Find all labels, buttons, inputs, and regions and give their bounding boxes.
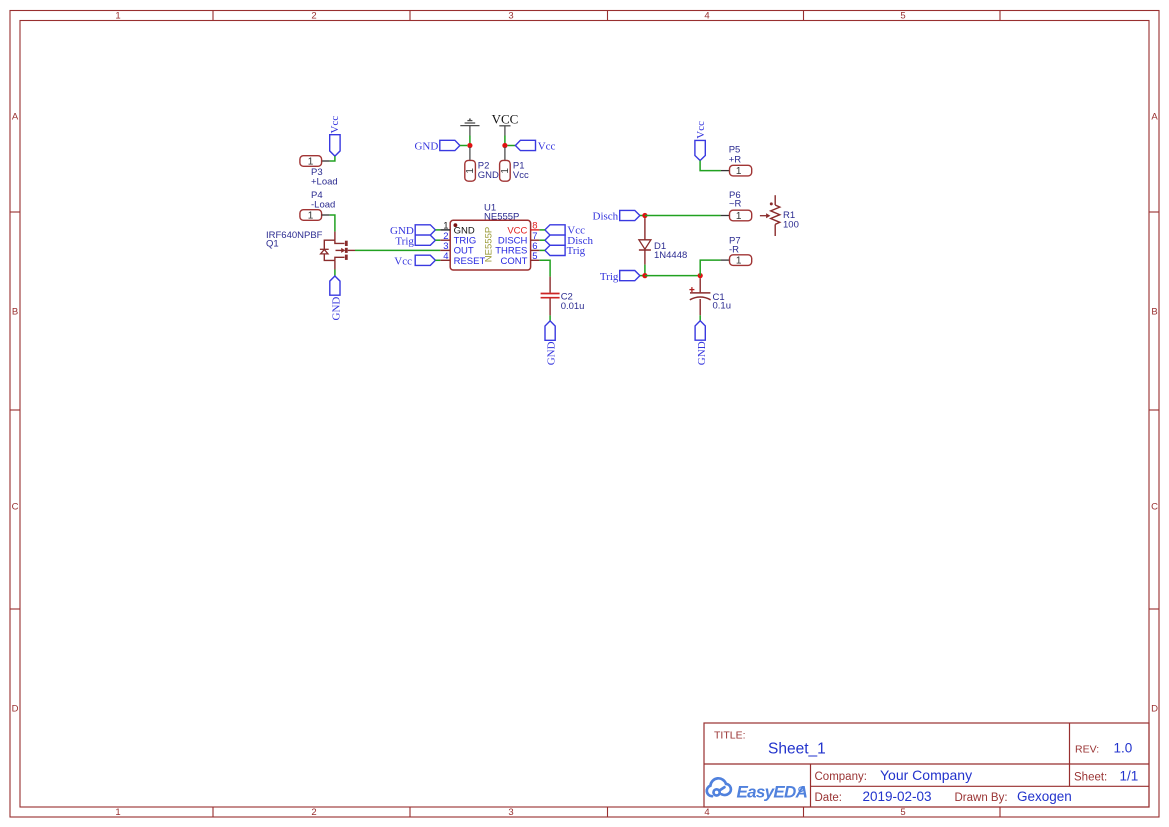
netflag Disch left (620, 210, 640, 220)
svg-text:1: 1 (465, 168, 476, 174)
wire Disch node to P6 (645, 215, 721, 217)
wire C1 node to P7 (700, 260, 720, 276)
op-amp U1 NE555P body (450, 220, 530, 270)
pin P5 pin1 (721, 170, 730, 172)
wire Vcc flag to pin4 (435, 259, 440, 261)
ruler tick bottom 4 (803, 807, 805, 817)
svg-text:-R: -R (729, 245, 739, 256)
netflag GND left of rail (440, 140, 460, 150)
EasyEDA logo registered mark (799, 787, 803, 791)
svg-text:Company:: Company: (815, 771, 867, 783)
connector P2 (465, 160, 476, 181)
pin 1 line (GND) (440, 229, 450, 231)
VCC power symbol (499, 126, 510, 136)
ruler tick left A/B (10, 211, 20, 213)
svg-text:Date:: Date: (815, 792, 843, 804)
pin P4 pin1 (322, 214, 330, 216)
svg-text:1: 1 (308, 156, 314, 167)
svg-text:1/1: 1/1 (1120, 769, 1139, 784)
svg-text:D: D (1151, 704, 1158, 715)
title block divider logo cell (810, 764, 812, 807)
pin P3 pin1 (322, 160, 330, 162)
svg-text:Vcc: Vcc (329, 116, 341, 134)
pin 3 line (OUT) (440, 249, 450, 251)
wire Trig flag to node (640, 275, 645, 277)
resistor R1 top lead (774, 195, 776, 205)
transistor Q1 channel bar (345, 241, 348, 260)
netflag Disch at pin7 (545, 235, 565, 245)
svg-text:Sheet_1: Sheet_1 (768, 741, 826, 758)
ground flag under C2 (545, 321, 555, 340)
EasyEDA logo cloud (707, 778, 731, 796)
diode D1 bottom lead (644, 250, 646, 265)
wire C2 to GND flag (549, 315, 551, 321)
wire P3 to Vcc flag (330, 156, 335, 161)
svg-text:D: D (12, 704, 19, 715)
svg-text:B: B (12, 307, 18, 318)
svg-text:Trig: Trig (567, 245, 586, 257)
ruler tick right A/B (1149, 211, 1159, 213)
title block divider rev column (1069, 723, 1071, 786)
svg-text:VCC: VCC (492, 111, 519, 126)
pin 1 marker dot (454, 223, 458, 227)
svg-text:GND: GND (696, 341, 708, 365)
capacitor C1 plus sign (689, 287, 694, 292)
pin 4 line (RESET) (440, 259, 450, 261)
connector P3 (300, 156, 322, 167)
svg-text:1: 1 (115, 11, 120, 22)
svg-text:1: 1 (736, 211, 742, 222)
ruler tick left C/D (10, 608, 20, 610)
wire vcc stem (504, 136, 506, 146)
junction dot gnd rail (467, 143, 472, 148)
svg-text:Sheet:: Sheet: (1074, 772, 1107, 784)
svg-text:B: B (1151, 307, 1157, 318)
svg-text:4: 4 (704, 807, 709, 818)
capacitor C1 bottom lead (699, 299, 701, 315)
wire pin8 to Vcc flag (539, 229, 545, 231)
svg-text:2019-02-03: 2019-02-03 (863, 789, 932, 804)
svg-text:1N4448: 1N4448 (654, 250, 687, 261)
svg-text:Vcc: Vcc (538, 141, 556, 153)
ruler tick top 4 (803, 11, 805, 21)
wire Trig flag to pin2 (435, 239, 440, 241)
svg-text:Your Company: Your Company (880, 767, 972, 783)
svg-text:Trig: Trig (395, 235, 414, 247)
svg-text:NE555P: NE555P (484, 227, 495, 262)
pin 2 line (TRIG) (440, 239, 450, 241)
diode D1 cathode bar (639, 249, 651, 251)
wire gnd stem (469, 136, 471, 146)
wire pin7 to Disch flag (539, 239, 545, 241)
svg-text:C: C (12, 502, 19, 513)
transistor Q1 gate arrow (341, 248, 345, 253)
svg-text:+Load: +Load (311, 176, 338, 187)
svg-text:GND: GND (478, 170, 499, 181)
pin P1 pin1 (504, 147, 506, 160)
svg-text:5: 5 (900, 11, 905, 22)
svg-text:Trig: Trig (600, 271, 619, 283)
svg-text:4: 4 (704, 11, 709, 22)
ruler tick top 2 (409, 11, 411, 21)
netflag Vcc at pin8 (545, 225, 565, 235)
ruler tick left B/C (10, 409, 20, 411)
transistor Q1 drain pin (334, 232, 336, 241)
connector P5 (730, 165, 752, 176)
resistor R1 zigzag (771, 205, 780, 224)
svg-text:Vcc: Vcc (513, 170, 529, 181)
svg-text:GND: GND (546, 341, 558, 365)
title block divider row1 (704, 763, 1149, 765)
wire gnd flag to junction (460, 145, 467, 147)
capacitor C1 curved plate (690, 297, 711, 300)
svg-text:Drawn By:: Drawn By: (955, 792, 1008, 804)
wire source to GND flag (334, 270, 336, 277)
svg-text:3: 3 (508, 11, 513, 22)
svg-text:A: A (1151, 112, 1158, 123)
junction dot vcc rail (502, 143, 507, 148)
wire GND flag to pin1 (435, 229, 440, 231)
ruler tick right B/C (1149, 409, 1159, 411)
resistor R1 bottom lead (774, 224, 776, 236)
transistor Q1 source pin (334, 260, 336, 269)
pin 6 line (THRES) (531, 249, 540, 251)
svg-text:EasyEDA: EasyEDA (737, 782, 808, 801)
pin 8 line (VCC) (531, 229, 540, 231)
svg-text:0.01u: 0.01u (561, 301, 585, 312)
wire pin6 to Trig flag (539, 249, 545, 251)
svg-text:A: A (12, 112, 19, 123)
svg-text:~R: ~R (729, 199, 742, 210)
svg-text:Vcc: Vcc (394, 255, 412, 267)
svg-text:2: 2 (311, 11, 316, 22)
wire Trig node to C1 node (645, 275, 700, 277)
svg-text:GND: GND (414, 141, 438, 153)
netflag Vcc at pin4 (415, 255, 435, 265)
capacitor C2 top lead (549, 277, 551, 293)
svg-text:Gexogen: Gexogen (1017, 789, 1072, 804)
title block divider row2 (811, 785, 1150, 787)
svg-text:TITLE:: TITLE: (714, 730, 746, 742)
pin P6 pin1 (721, 215, 730, 217)
diode D1 top lead (644, 218, 646, 240)
wire P4 to Q1 drain (330, 215, 335, 232)
capacitor C1 top lead (699, 278, 701, 292)
ruler tick top 5 (999, 11, 1001, 21)
svg-text:5: 5 (532, 251, 537, 262)
wire vcc junction to flag (508, 145, 516, 147)
connector P1 (500, 160, 511, 181)
svg-text:1: 1 (736, 256, 742, 267)
svg-text:0.1u: 0.1u (713, 301, 732, 312)
svg-text:1: 1 (308, 210, 314, 221)
ruler tick bottom 2 (409, 807, 411, 817)
svg-text:+R: +R (729, 154, 742, 165)
ruler tick bottom 3 (607, 807, 609, 817)
svg-text:4: 4 (443, 251, 448, 262)
title block outer rect (704, 723, 1149, 807)
netflag GND at pin1 (415, 225, 435, 235)
capacitor C2 plates (541, 294, 560, 298)
ruler tick top 1 (212, 11, 214, 21)
svg-text:GND: GND (331, 297, 343, 321)
pin 5 line (CONT) (531, 259, 540, 261)
wire Vcc flag to P5 (700, 161, 721, 171)
diode D1 triangle (639, 240, 651, 249)
resistor R1 wiper arrow line (760, 215, 766, 217)
wire C1 to GND flag (699, 315, 701, 321)
svg-text:Vcc: Vcc (695, 121, 707, 139)
svg-text:-Load: -Load (311, 199, 335, 210)
wire D1 to Trig node (644, 265, 646, 276)
capacitor C1 top plate (690, 292, 710, 294)
wire pin5 to C2 (539, 260, 550, 276)
ruler tick top 3 (607, 11, 609, 21)
transistor Q1 body diode (320, 249, 329, 254)
connector P4 (300, 210, 322, 221)
netflag Trig at pin2 (415, 235, 435, 245)
ruler tick bottom 1 (212, 807, 214, 817)
connector P7 (730, 255, 752, 266)
pin P7 pin1 (721, 259, 730, 261)
svg-text:RESET: RESET (454, 256, 486, 267)
svg-text:3: 3 (508, 807, 513, 818)
pin P2 pin1 (469, 147, 471, 160)
svg-text:Disch: Disch (593, 211, 619, 223)
svg-text:Q1: Q1 (266, 239, 279, 250)
wire OUT to gate (355, 249, 440, 251)
svg-text:5: 5 (900, 807, 905, 818)
ruler tick right C/D (1149, 608, 1159, 610)
pin 7 line (DISCH) (531, 239, 540, 241)
netflag Trig at pin6 (545, 245, 565, 255)
svg-text:C: C (1151, 502, 1158, 513)
svg-text:CONT: CONT (500, 256, 527, 267)
svg-text:1: 1 (736, 166, 742, 177)
svg-text:REV:: REV: (1075, 744, 1099, 756)
junction dot Disch node (642, 213, 647, 218)
connector P6 (730, 210, 752, 221)
wire Disch flag to junction (640, 215, 645, 217)
svg-text:2: 2 (311, 807, 316, 818)
netflag Vcc above P5 (695, 140, 705, 160)
netflag Vcc symbol above P3 (330, 135, 340, 156)
capacitor C2 bottom lead (549, 298, 551, 315)
transistor Q1 body outline (324, 240, 355, 260)
svg-text:1: 1 (500, 168, 511, 174)
netflag Vcc right of rail (515, 140, 535, 150)
resistor R1 dot (770, 202, 773, 205)
ground flag under C1 (695, 321, 705, 340)
netflag Trig left (620, 271, 640, 281)
svg-text:100: 100 (783, 220, 799, 231)
ground flag under Q1 (330, 276, 340, 295)
svg-text:1.0: 1.0 (1114, 741, 1133, 756)
resistor R1 wiper arrowhead (766, 213, 770, 218)
junction dot C1 node (698, 273, 703, 278)
svg-text:1: 1 (115, 807, 120, 818)
junction dot Trig node (642, 273, 647, 278)
earth ground symbol (460, 119, 479, 135)
ruler tick bottom 5 (999, 807, 1001, 817)
